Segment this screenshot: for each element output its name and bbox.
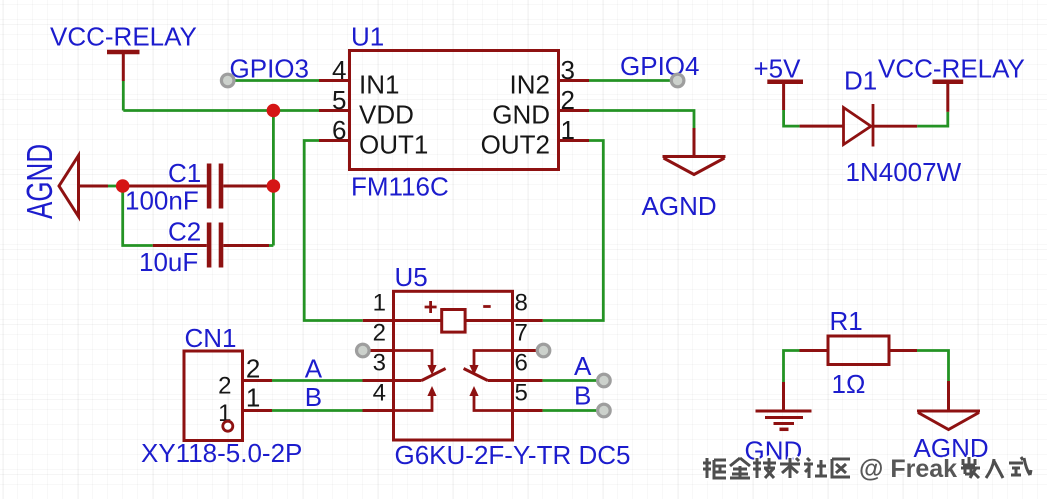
svg-text:1: 1 bbox=[561, 115, 575, 145]
svg-text:VCC-RELAY: VCC-RELAY bbox=[878, 54, 1025, 84]
ground GND symbol bbox=[756, 411, 812, 424]
svg-text:10uF: 10uF bbox=[139, 247, 198, 277]
wire net B right bbox=[543, 409, 604, 412]
wire U1 GND to AGND bbox=[589, 111, 694, 129]
svg-text:A: A bbox=[305, 354, 323, 384]
U1 right pin stubs bbox=[559, 81, 589, 141]
U5 pin6 stub bbox=[513, 379, 543, 382]
wire R1 left bbox=[784, 349, 800, 382]
junction dot VDD bbox=[267, 104, 281, 118]
unconnected pin circle GPIO3 bbox=[221, 74, 234, 87]
wire GPIO3 bbox=[229, 79, 319, 82]
unconnected pin circle U5 pin7 bbox=[537, 344, 550, 357]
svg-text:5: 5 bbox=[515, 380, 528, 407]
svg-text:AGND: AGND bbox=[19, 144, 60, 219]
svg-text:A: A bbox=[574, 351, 592, 381]
svg-text:GND: GND bbox=[492, 100, 550, 130]
power symbol +5V bbox=[767, 82, 803, 110]
svg-text:6: 6 bbox=[332, 115, 346, 145]
svg-text:6: 6 bbox=[515, 350, 528, 377]
svg-text:1: 1 bbox=[373, 290, 386, 317]
R1 right lead bbox=[889, 349, 917, 352]
svg-text:OUT1: OUT1 bbox=[359, 130, 428, 160]
CN1 pin stubs bbox=[243, 381, 273, 411]
svg-text:C1: C1 bbox=[168, 158, 201, 188]
U5 pin5 internal arrow bbox=[474, 395, 513, 411]
svg-text:GPIO3: GPIO3 bbox=[230, 54, 309, 84]
svg-text:IN1: IN1 bbox=[359, 70, 399, 100]
wire diode to VCC-RELAY bbox=[917, 112, 948, 126]
power symbol VCC-RELAY right bbox=[933, 82, 964, 112]
svg-text:R1: R1 bbox=[830, 306, 863, 336]
svg-text:7: 7 bbox=[515, 320, 528, 347]
svg-text:100nF: 100nF bbox=[125, 186, 199, 216]
svg-text:XY118-5.0-2P: XY118-5.0-2P bbox=[141, 438, 302, 468]
capacitor C1 bbox=[129, 164, 273, 209]
ground AGND mid symbol bbox=[663, 157, 726, 175]
U1 left pin stubs bbox=[319, 81, 350, 141]
svg-text:OUT2: OUT2 bbox=[481, 130, 550, 160]
U5 pin3 internal and blade bbox=[394, 369, 446, 381]
svg-text:1: 1 bbox=[246, 383, 260, 413]
svg-text:C2: C2 bbox=[168, 217, 201, 247]
CN1 polarity circle bbox=[223, 421, 233, 431]
svg-text:G6KU-2F-Y-TR DC5: G6KU-2F-Y-TR DC5 bbox=[395, 440, 631, 470]
ground AGND right stem bbox=[947, 381, 950, 411]
wire GPIO4 bbox=[589, 79, 678, 82]
wire AGND to C1 bbox=[108, 185, 123, 188]
svg-text:B: B bbox=[305, 382, 322, 412]
diode D1 bbox=[844, 104, 918, 147]
U5 pin stubs left bbox=[363, 349, 394, 352]
svg-text:2: 2 bbox=[561, 85, 575, 115]
unconnected pin circle GPIO4 bbox=[671, 74, 684, 87]
wire OUT1 to relay pin1 bbox=[304, 141, 363, 321]
svg-text:3: 3 bbox=[373, 350, 386, 377]
svg-text:VCC-RELAY: VCC-RELAY bbox=[50, 22, 197, 52]
wire R1 right bbox=[917, 349, 949, 381]
ground AGND left symbol bbox=[59, 156, 108, 217]
U5 pin5 stub bbox=[513, 409, 543, 412]
wire net A right bbox=[543, 379, 604, 382]
svg-text:AGND: AGND bbox=[642, 191, 717, 221]
wire net A bbox=[272, 379, 363, 382]
unconnected pin circle U5 pin2 bbox=[357, 344, 370, 357]
ground GND stem bbox=[782, 382, 785, 411]
U5 plus mark bbox=[425, 301, 437, 313]
diode D1 anode lead bbox=[800, 125, 844, 128]
U5 minus mark bbox=[483, 305, 491, 308]
svg-text:U1: U1 bbox=[351, 22, 384, 52]
svg-text:@ Freak: @ Freak bbox=[859, 455, 957, 483]
R1 left lead bbox=[800, 349, 829, 352]
svg-text:GPIO4: GPIO4 bbox=[620, 51, 699, 81]
svg-text:4: 4 bbox=[373, 380, 386, 407]
power symbol VCC-RELAY bbox=[107, 52, 140, 81]
svg-text:IN2: IN2 bbox=[510, 70, 550, 100]
junction dot C1 right bbox=[267, 179, 281, 193]
svg-text:1Ω: 1Ω bbox=[832, 369, 866, 399]
wire VDD row bbox=[123, 109, 319, 112]
svg-text:FM116C: FM116C bbox=[351, 172, 449, 202]
wire OUT2 to relay pin8 bbox=[543, 141, 604, 321]
U5 coil line bbox=[394, 319, 513, 322]
connector CN1 body bbox=[184, 351, 243, 441]
svg-text:CN1: CN1 bbox=[185, 323, 237, 353]
ground AGND right symbol bbox=[917, 411, 980, 430]
svg-text:VDD: VDD bbox=[359, 100, 414, 130]
U5 coil box bbox=[442, 310, 465, 333]
wire C2 left branch bbox=[123, 186, 153, 246]
unconnected pin circle B bbox=[598, 404, 611, 417]
resistor R1 body bbox=[828, 336, 889, 365]
svg-text:1N4007W: 1N4007W bbox=[846, 157, 962, 187]
svg-text:2: 2 bbox=[218, 373, 231, 400]
U5 pin8 stub bbox=[513, 319, 543, 322]
svg-text:2: 2 bbox=[246, 354, 260, 384]
unconnected pin circle A bbox=[598, 374, 611, 387]
U5 pin stub 8 red part drawn with wire; pin7 stub bbox=[513, 349, 544, 352]
U5 pin3 stub bbox=[363, 379, 394, 382]
svg-text:8: 8 bbox=[515, 290, 528, 317]
svg-text:5: 5 bbox=[332, 85, 346, 115]
wire +5V to diode bbox=[784, 110, 800, 126]
U5 pin4 stub bbox=[363, 409, 394, 412]
U5 pin7 internal arrow bbox=[474, 351, 513, 367]
U5 pin6 internal and blade bbox=[464, 369, 513, 381]
svg-text:D1: D1 bbox=[844, 66, 877, 96]
U5 pin1 stub bbox=[363, 319, 394, 322]
U5 pin2 internal arrow bbox=[394, 351, 433, 367]
capacitor C2 bbox=[153, 223, 274, 268]
U5 pin4 internal arrow bbox=[394, 395, 433, 411]
ground AGND mid stem bbox=[693, 128, 696, 157]
svg-text:U5: U5 bbox=[395, 262, 428, 292]
junction dot AGND-C1 bbox=[116, 179, 130, 193]
wire decoupling vertical bbox=[272, 111, 275, 246]
svg-text:3: 3 bbox=[561, 55, 575, 85]
svg-text:4: 4 bbox=[332, 55, 346, 85]
wire VCC-RELAY stem bbox=[122, 81, 125, 111]
svg-text:2: 2 bbox=[373, 320, 386, 347]
svg-text:+5V: +5V bbox=[754, 54, 802, 84]
op-amp U1 body bbox=[350, 51, 559, 170]
wire net B bbox=[272, 409, 363, 412]
relay U5 body bbox=[394, 291, 513, 440]
svg-text:B: B bbox=[574, 381, 591, 411]
